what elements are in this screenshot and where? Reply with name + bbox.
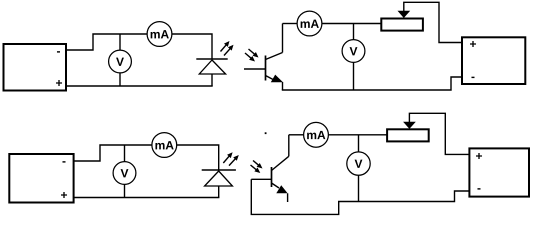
wire top rail to voltmeter V3 [124, 145, 126, 162]
LED D1 light emission arrows [221, 41, 234, 56]
milliammeter mA4 [304, 122, 329, 147]
voltmeter V3 [113, 162, 136, 185]
milliammeter mA1 [147, 22, 172, 47]
wire B1 negative terminal to top rail [66, 34, 148, 50]
wire top rail to voltmeter V2 [353, 24, 355, 40]
wire Q2 emitter stub (floating) [287, 193, 289, 202]
battery B1 [4, 44, 67, 91]
wire mA2 to potentiometer R1 [322, 23, 381, 25]
label B1 plus terminal [56, 80, 62, 86]
wire LED D2 anode lead [218, 186, 220, 198]
potentiometer R2 [387, 122, 429, 142]
wire mA4 to potentiometer R2 [328, 134, 387, 136]
light arrows into phototransistor Q1 [245, 49, 259, 62]
wire top rail to voltmeter V4 [358, 135, 360, 152]
wire voltmeter V2 to bottom rail [353, 62, 355, 90]
wire mA1 to LED D1 cathode [172, 34, 212, 59]
label B1 minus terminal [57, 51, 60, 52]
voltmeter V1 [109, 50, 132, 73]
wire voltmeter V4 to bottom rail [358, 175, 360, 201]
wire B3 negative terminal to top rail [74, 145, 153, 161]
milliammeter mA3 [152, 133, 177, 158]
voltmeter V2 [342, 40, 365, 63]
wire top rail to mA2 [283, 23, 298, 25]
label B3 plus terminal [61, 192, 67, 198]
wire R2 wiper to B4 plus [409, 113, 469, 154]
milliammeter mA2 [297, 11, 322, 36]
label B4 plus terminal [476, 153, 482, 159]
wire top rail to voltmeter V1 [119, 34, 121, 50]
wire voltmeter V1 to bottom rail [119, 73, 121, 86]
potentiometer R1 [381, 11, 423, 31]
label B2 minus terminal [471, 77, 474, 78]
LED D2 [202, 170, 236, 186]
wire Q2 base lead to bottom rail [251, 179, 469, 214]
stray dot [265, 132, 267, 134]
wire bottom rail to B2 minus [282, 77, 462, 90]
LED D2 light emission arrows [223, 152, 239, 165]
wire voltmeter V3 to bottom rail [124, 184, 126, 197]
label B2 plus terminal [470, 41, 476, 47]
battery B2 [462, 37, 525, 84]
wire Q2 collector to top rail [288, 135, 290, 157]
wire bottom rail B1 plus to LED D1 anode [66, 85, 213, 87]
label B4 minus terminal [477, 188, 480, 189]
wire mA3 to LED D2 cathode [177, 145, 219, 170]
wire top rail to mA4 [289, 134, 304, 136]
LED D1 [196, 59, 227, 74]
wire Q1 collector to top rail [282, 24, 284, 53]
voltmeter V4 [347, 152, 370, 175]
phototransistor Q2 [251, 156, 288, 193]
light arrows into phototransistor Q2 [251, 161, 263, 174]
label B3 minus terminal [62, 161, 65, 162]
wire LED D1 anode lead [211, 74, 213, 86]
battery B4 [469, 148, 529, 196]
wire bottom rail B3 plus to LED D2 anode [74, 197, 220, 199]
battery B3 [9, 154, 73, 203]
wire Q1 emitter to bottom rail [282, 82, 284, 90]
phototransistor Q1 [244, 53, 283, 83]
wire R1 wiper to B2 plus [404, 2, 462, 42]
